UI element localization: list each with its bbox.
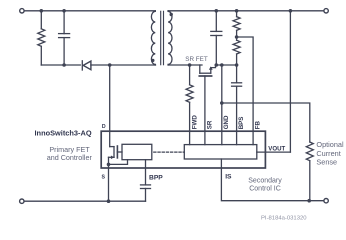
polarity dot secondary: [170, 13, 173, 16]
svg-text:S: S: [102, 175, 106, 181]
resistor FB upper: [233, 11, 240, 37]
wire clamp bottom: [41, 64, 80, 66]
node clamp capacitor top: [62, 9, 66, 13]
secondary controller block: [184, 145, 256, 159]
polarity dot primary: [151, 59, 154, 62]
svg-text:SR: SR: [206, 120, 213, 129]
terminal output+: [324, 9, 328, 13]
capacitor output: [211, 11, 222, 65]
wire secondary ground node: [216, 64, 236, 66]
svg-text:D: D: [102, 124, 106, 130]
svg-text:BPP: BPP: [149, 174, 163, 181]
IC outline InnoSwitch3-AQ: [101, 131, 265, 168]
terminal input-: [20, 199, 24, 203]
node GND pin junction: [220, 63, 224, 67]
wire S pin: [108, 164, 110, 201]
resistor FWD: [186, 65, 193, 145]
node output cap bottom: [215, 63, 219, 67]
svg-text:InnoSwitch3-AQ: InnoSwitch3-AQ: [35, 129, 92, 138]
svg-text:VOUT: VOUT: [268, 146, 285, 153]
wire drain to IC: [109, 65, 111, 147]
wire top output rail: [168, 10, 324, 12]
wire VOUT pin: [257, 151, 291, 153]
node output cap top: [215, 9, 219, 13]
node source junction: [107, 163, 111, 167]
svg-text:Secondary: Secondary: [248, 177, 282, 184]
resistor FB lower: [233, 37, 240, 65]
capacitor clamp: [59, 11, 70, 65]
svg-text:BPS: BPS: [238, 117, 245, 130]
wire primary return rail: [24, 200, 145, 202]
svg-text:and Controller: and Controller: [47, 153, 93, 162]
node S rail: [107, 199, 111, 203]
terminal input+: [20, 9, 24, 13]
wire VOUT riser: [289, 11, 291, 152]
svg-text:PI-8184a-031320: PI-8184a-031320: [261, 216, 307, 222]
svg-text:Sense: Sense: [316, 158, 337, 167]
wire current sense branch: [222, 103, 310, 142]
svg-text:Control IC: Control IC: [249, 185, 281, 192]
node FB divider bottom: [235, 63, 239, 67]
capacitor BPP: [141, 160, 151, 202]
node clamp resistor top: [40, 9, 44, 13]
transistor SR FET: [199, 65, 215, 145]
transformer core: [161, 11, 164, 64]
svg-text:FWD: FWD: [191, 115, 198, 130]
svg-text:Current: Current: [316, 149, 340, 158]
primary controller block: [122, 144, 152, 159]
node sense resistor bottom: [307, 199, 311, 203]
terminal output-: [324, 199, 328, 203]
wire secondary return rail: [168, 64, 202, 66]
svg-text:FB: FB: [255, 121, 262, 130]
capacitor BPS: [232, 65, 242, 145]
svg-text:GND: GND: [223, 115, 230, 129]
wire GND pin: [221, 65, 223, 145]
transformer T1 secondary winding: [168, 11, 172, 65]
transformer T1 primary winding: [151, 11, 155, 65]
node FB tap: [235, 35, 239, 39]
node VOUT branch: [289, 9, 293, 13]
node FB divider top: [235, 9, 239, 13]
node FWD junction: [188, 63, 192, 67]
svg-text:SR FET: SR FET: [185, 56, 208, 63]
diode clamp: [82, 61, 155, 70]
wire source to controller: [109, 160, 128, 165]
wire dashed link: [154, 151, 185, 153]
wire FB tap to FB pin: [237, 37, 254, 145]
resistor current sense: [306, 142, 313, 201]
node current sense tap: [220, 101, 224, 105]
resistor clamp: [38, 11, 45, 65]
svg-text:Optional: Optional: [316, 140, 344, 149]
node clamp capacitor bottom: [62, 63, 66, 67]
transistor primary FET: [109, 146, 123, 164]
wire IS pin: [221, 159, 323, 201]
node D junction: [108, 63, 112, 67]
wire top-left input rail: [24, 10, 155, 12]
svg-text:IS: IS: [225, 174, 232, 181]
